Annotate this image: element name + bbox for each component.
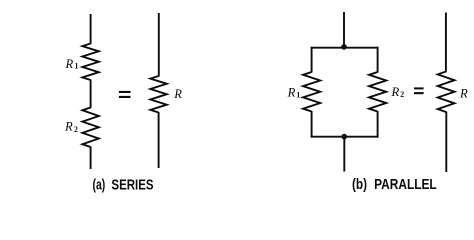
- wire: parallel right branch upper segment: [377, 47, 379, 73]
- svg-text:2: 2: [400, 90, 404, 99]
- wire: parallel equivalent branch top segment: [445, 13, 447, 73]
- node: bottom junction dot: [341, 134, 347, 140]
- resistor R2 (series): [82, 108, 98, 148]
- svg-text:R: R: [459, 87, 468, 101]
- resistor R (series equivalent): [150, 76, 166, 113]
- wire: parallel left branch upper segment: [311, 47, 313, 73]
- wire: series equivalent branch bottom segment: [158, 112, 160, 168]
- label R2 (series): [64, 120, 78, 135]
- label R1 (series): [65, 57, 79, 71]
- label R1 (parallel): [287, 85, 301, 99]
- label R (series equivalent): [173, 87, 182, 101]
- label R2 (parallel): [391, 85, 405, 99]
- svg-text:2: 2: [74, 125, 78, 134]
- wire: series equivalent branch top segment: [158, 13, 160, 77]
- wire: series left branch bottom segment: [90, 147, 92, 170]
- label R (parallel equivalent): [459, 87, 468, 101]
- resistor R1 (parallel): [303, 72, 320, 112]
- wire: parallel left branch lower segment: [311, 111, 313, 138]
- caption (a) SERIES: [93, 177, 154, 193]
- resistor R1 (series): [82, 44, 98, 81]
- svg-text:PARALLEL: PARALLEL: [374, 177, 437, 193]
- svg-text:R: R: [65, 57, 74, 71]
- svg-text:(b): (b): [352, 177, 367, 193]
- wire: series left branch top segment: [90, 14, 92, 44]
- svg-text:SERIES: SERIES: [111, 177, 153, 193]
- svg-text:1: 1: [75, 62, 79, 71]
- resistor R (parallel equivalent): [438, 72, 455, 113]
- wire: parallel top rail: [311, 47, 379, 49]
- svg-text:R: R: [287, 85, 296, 99]
- node: top junction dot: [341, 44, 347, 50]
- caption (b) PARALLEL: [352, 177, 437, 193]
- svg-text:R: R: [64, 120, 73, 134]
- wire: parallel bottom stub: [343, 137, 345, 172]
- equals sign (parallel): [414, 87, 424, 94]
- resistor R2 (parallel): [369, 72, 386, 112]
- wire: parallel right branch lower segment: [377, 111, 379, 138]
- equals sign (series): [119, 91, 131, 98]
- svg-text:1: 1: [296, 91, 300, 100]
- svg-text:R: R: [173, 87, 182, 101]
- wire: series left branch middle segment: [90, 80, 92, 109]
- wire: parallel equivalent branch bottom segment: [445, 112, 447, 173]
- svg-text:R: R: [391, 85, 400, 99]
- svg-text:(a): (a): [93, 177, 106, 193]
- wire: parallel bottom rail: [311, 136, 379, 138]
- wire: parallel top stub: [343, 12, 345, 46]
